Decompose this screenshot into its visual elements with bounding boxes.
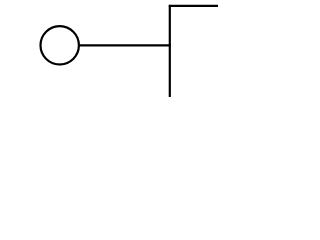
component box top edge (169, 5, 218, 7)
terminal circle (41, 26, 79, 64)
wire (79, 44, 171, 46)
component box left edge (169, 5, 171, 97)
